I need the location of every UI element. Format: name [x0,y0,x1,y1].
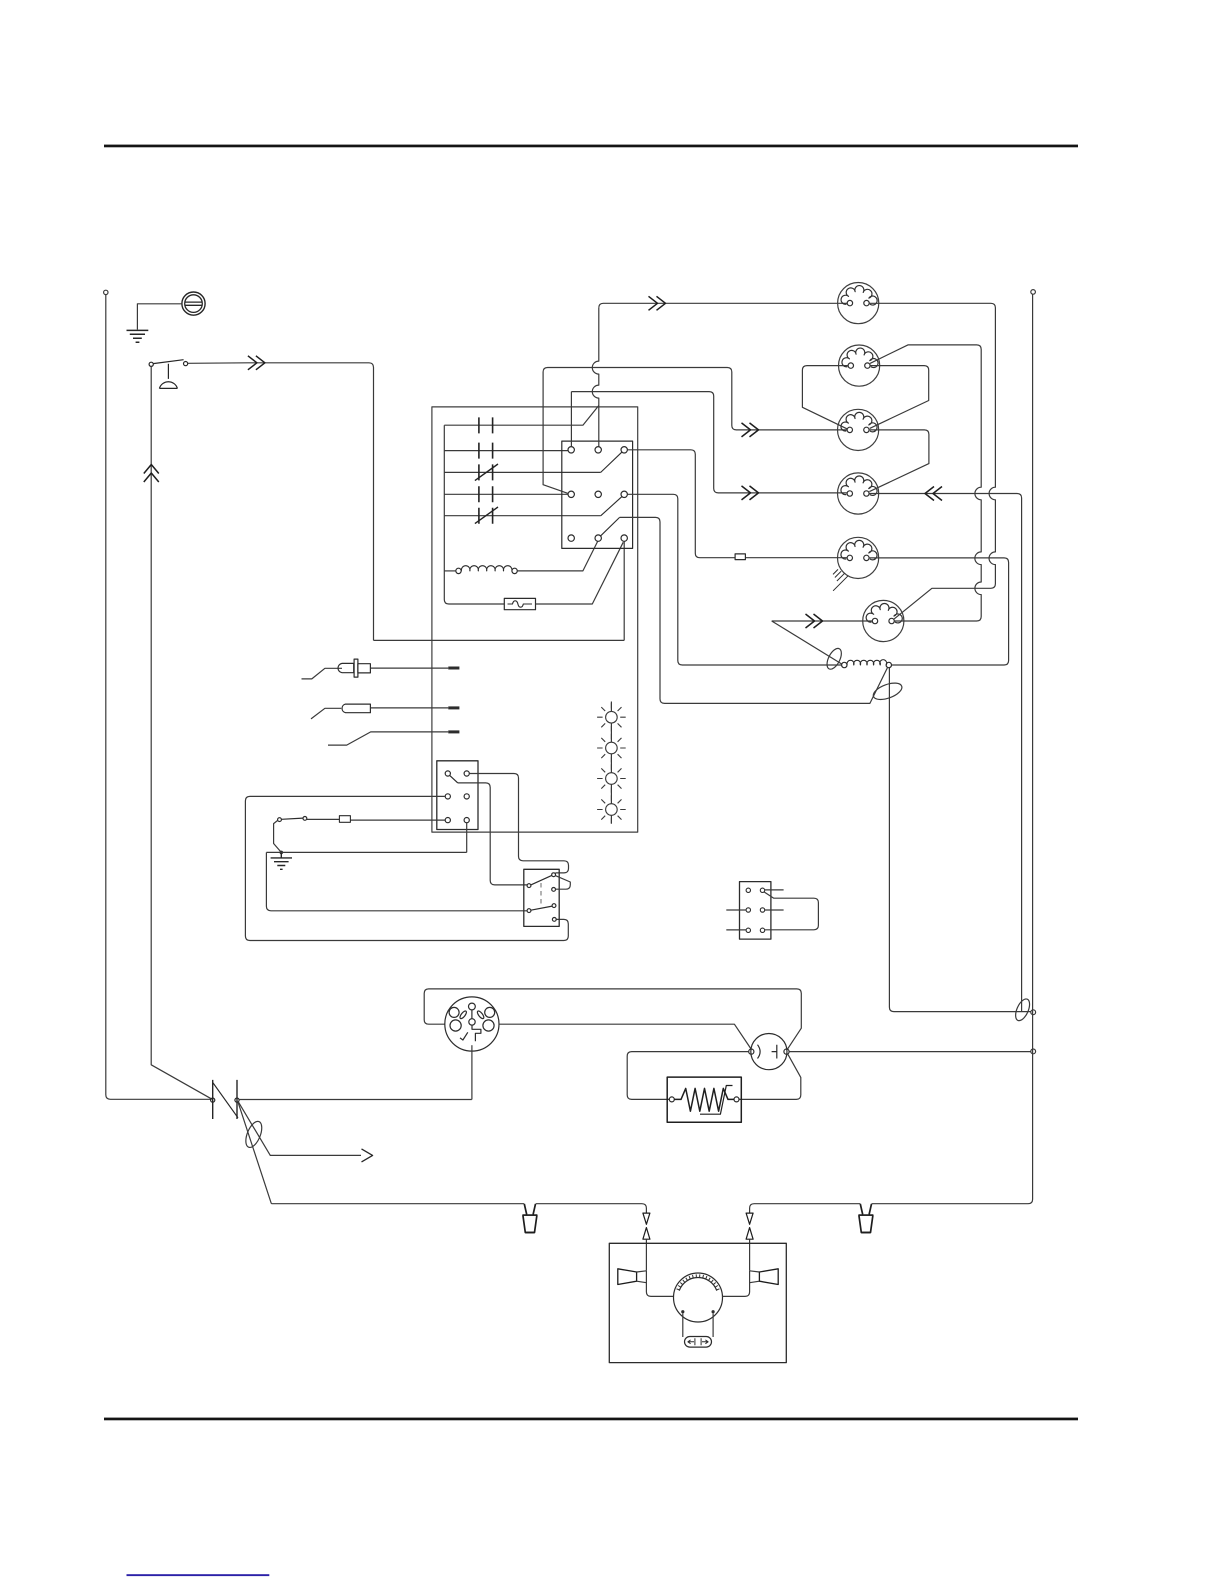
wire: TB1 mid-left long loop to lamp switch [245,796,568,940]
wire: row D [444,493,568,495]
inline plug P2 [858,1204,873,1233]
connector chevron A4 (lamp4 feed) [742,486,759,500]
key switch contact bars [479,417,493,523]
page bottom rule [104,1418,1078,1421]
inline connector K1 on lamp5 feed [735,554,745,560]
resistor terminals [669,1097,674,1102]
wire: distributor cap to lighter left [499,1024,751,1049]
wire: cone fork right [750,1271,760,1283]
wire: ground bus to lamp switch low [266,852,527,910]
lamp L5 [838,537,879,578]
S4 jumper loop [555,876,570,890]
wire: service switch to ground [274,820,282,852]
starter-generator enclosure [609,1243,786,1362]
wire: switch to accessory arrow lead [238,1102,361,1156]
wire: motor right lead [723,1271,750,1297]
ground junction dot [280,851,284,855]
wire: horn harness to row3 right drop [374,639,625,641]
wire: fuse to switch row3 right [536,542,624,604]
wire: lamp4 drop to rail junction [1021,498,1023,1012]
wire: switch to battery minus rail [238,1102,524,1204]
cable connector C2 [311,704,370,719]
accessory switch S2 [211,1080,240,1119]
commutator arc [679,1278,717,1291]
ignition coil primary L1coil [456,566,518,574]
connector chevron A6 (left facing) [925,487,942,501]
wire: TB1 bottom-left to inline fuse [307,818,445,821]
cigar lighter U1 [749,1034,789,1070]
TB1 terminals [445,771,469,823]
wire: C2 to panel [370,707,448,709]
plate terminals row1 [568,447,627,542]
wire: right drop into starter box [749,1239,751,1270]
node: lighter rail junction [1031,1049,1036,1054]
wire: horn button to key switch harness [188,363,374,641]
wire: lamp3 right to lamp4 right [869,430,929,492]
lamp L3 [838,409,879,450]
wire: C1 to panel [370,667,448,669]
resistor element R1 [674,1088,734,1111]
wire: lamp2 right to lamp3 right [870,366,929,429]
disconnect arrows (left drop) [643,1213,650,1239]
TB1 blade [450,775,458,783]
wire: row C [444,471,600,473]
resistor tap mark [700,1086,733,1115]
wire: plate row1 col1 drop from above [570,392,572,447]
spark plug connector C1 [302,659,371,679]
wire: left rail down to accessory switch [106,295,211,1100]
connector chevron A5 (lamp1 feed) [649,296,666,310]
wire: inner bus left vertical [444,425,504,604]
wire: lamp1 feed row [599,303,847,308]
wire: lighter left to ballast resistor [627,1052,749,1100]
wire: lamp5 right to field coil [869,558,1009,665]
ground G1 [127,330,149,342]
horn B1 (double circle) [182,292,205,315]
field plug pins [688,1338,708,1345]
ballast resistor R1 box [667,1077,741,1122]
footer link underline [127,1574,270,1576]
disconnect arrows (right drop) [746,1213,753,1239]
lamp L6 [863,600,904,641]
lamp switch S4 box [524,869,559,926]
wire: lamp2 left pocket to lamp3 [802,366,848,429]
contact slash marks [475,464,498,524]
wire: TB1 top-right to light switch feed [469,774,568,873]
TB2 stubs [726,890,783,930]
connector chevron A1 [248,356,265,370]
wire: lighter right to resistor right [739,1054,801,1100]
connector chevron A7 (lamp6 feed) [806,614,823,628]
wire: switch to distributor return [239,1099,472,1101]
wire: lamp5 left feed [627,450,847,558]
wire: lamp1 right loop to lamp6 [869,303,995,619]
wire: lamp6 junction diagonal to coil left [772,621,842,664]
wire: lamp6 feed junction [772,620,873,622]
wire: row2 col3 to field coil left [627,494,841,665]
harness marker E3 [1013,997,1033,1023]
key switch contact plate (9 pin box) [562,441,633,548]
wire: row3 right vertical [623,541,625,640]
wire: inner bus top row A [444,406,599,426]
node: battery feed terminal (top left) [104,290,108,294]
wire: coil to switch row3 mid [517,541,598,571]
motor brush dots [681,1310,684,1313]
connector chevron A2 (up) [144,465,159,483]
wire: coil return down right side [889,668,1030,1012]
wire: battery rail to starter drop (left) [536,1204,647,1213]
wire: plate row1 col2 drop from lamp feed (with hops) [592,308,599,447]
connector chevron A3 (lamp3 feed) [742,423,759,437]
wire: horn rail down-left [151,366,212,1099]
commutator teeth [677,1274,720,1290]
distributor D1 [445,997,499,1051]
ground G2 [271,852,292,869]
plate blade row1 [601,452,622,472]
S4 blades [531,875,552,910]
key switch enclosure (outer box) [432,407,638,832]
wire: left drop into starter box [645,1239,647,1270]
plate blade row2 [601,497,622,516]
distributor feed wire (top of loop) [424,989,801,1050]
S4 dashed link [540,883,542,907]
indicator lamp G1 [597,703,626,732]
wire: row E [444,515,601,517]
panel pin dash 3 [448,730,459,733]
page top rule [104,145,1078,148]
wire: lamp4 feed loop [571,392,847,493]
wire: distributor points to switch [471,1045,473,1099]
inline plug P1 [522,1204,537,1233]
wire: TB1 blade to light switch upper [458,783,527,885]
panel pin dash 1 [448,667,459,670]
lamp L2 [839,345,880,386]
wire: row2 col1 up over to lamp3 [543,368,847,494]
node: rail junction upper [1031,1010,1036,1015]
field plug (stadium) [685,1337,712,1348]
wire: brushes to field plug [683,1313,713,1337]
terminal cone right [759,1269,778,1285]
field coil L2coil [842,660,892,668]
terminal cone left [618,1269,637,1285]
TB2 terminals [746,888,765,932]
wire: cone fork left [637,1271,674,1297]
cable lead C3 [328,732,448,745]
horn bell symbol [159,364,177,389]
indicator lamp G2 [597,734,626,763]
indicator lamp chain stub [610,702,612,824]
wire: horn to ground [137,304,182,330]
terminal block TB2 [740,882,771,940]
harness marker E1 (ellipse) [243,1119,265,1149]
service switch S3 [278,817,307,822]
TB2 jumper loop [764,892,818,930]
lamp L1 [838,283,879,324]
inline fuse F2 [339,816,350,823]
wire: row B [444,450,568,452]
wire: row3 blade to field coil (via lower loop) [620,517,888,703]
lamp5 heat marks [833,569,848,590]
wire: battery rail right portion [750,294,1033,1212]
S4 contacts [527,873,556,922]
terminal block TB1 [437,761,478,830]
horn button S1 [149,360,188,367]
indicator lamp G4 [597,795,626,824]
arrow head (accessory feed) [362,1149,373,1162]
wire: ground bus to TB1 bottom-right [266,823,466,853]
harness marker E2 [824,646,844,671]
node: right rail top terminal [1031,290,1036,295]
wire: lamp4 right to rail drop [869,494,1022,499]
fuse F1 [504,598,535,609]
wire: bus to coil [444,570,456,572]
wire: lamp2 right loop to lamp6 [870,345,981,621]
wire: lighter right to rail [789,1051,1031,1053]
harness marker E2b [871,680,904,703]
panel pin dash 2 [448,706,459,709]
lamp L4 [838,473,879,514]
plate blade row3 [601,517,620,535]
starter motor M1 [674,1273,723,1322]
indicator lamp G3 [597,764,626,793]
